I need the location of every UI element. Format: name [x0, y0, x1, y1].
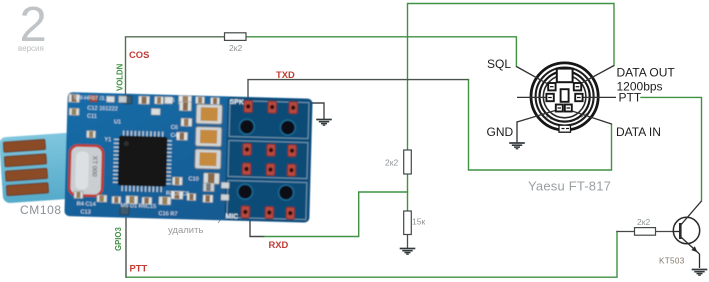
svg-text:C13: C13 — [80, 209, 90, 215]
svg-text:C4: C4 — [170, 133, 177, 139]
svg-text:CM108: CM108 — [20, 203, 62, 217]
svg-text:C16 R7: C16 R7 — [158, 211, 177, 218]
svg-text:2к2: 2к2 — [637, 217, 650, 227]
svg-text:TXD: TXD — [276, 69, 295, 80]
svg-text:Yaesu FT-817: Yaesu FT-817 — [528, 179, 611, 194]
svg-text:COS: COS — [129, 49, 149, 60]
svg-text:R4 C14: R4 C14 — [77, 201, 96, 208]
svg-text:KT503: KT503 — [659, 257, 685, 266]
svg-text:XT 000: XT 000 — [90, 156, 98, 177]
svg-text:Y1: Y1 — [104, 137, 111, 143]
svg-text:SW-HF07 /3.1: SW-HF07 /3.1 — [73, 95, 108, 102]
svg-text:DATA OUT: DATA OUT — [617, 66, 676, 80]
svg-text:2к2: 2к2 — [229, 43, 242, 53]
svg-text:DATA IN: DATA IN — [616, 125, 661, 139]
svg-text:SQL: SQL — [487, 57, 511, 71]
svg-text:RXD: RXD — [269, 239, 289, 250]
svg-text:C5: C5 — [167, 98, 174, 104]
svg-text:R3C9 C8: R3C9 C8 — [166, 191, 189, 198]
svg-text:версия: версия — [18, 44, 44, 53]
svg-text:C12 161222: C12 161222 — [87, 106, 118, 113]
svg-text:M5 D1 R6C15: M5 D1 R6C15 — [121, 203, 157, 210]
svg-text:2к2: 2к2 — [385, 158, 398, 168]
svg-text:15к: 15к — [412, 217, 425, 227]
svg-text:U1: U1 — [114, 119, 121, 125]
svg-text:C6: C6 — [171, 125, 178, 131]
svg-text:VOLDN: VOLDN — [116, 63, 125, 91]
svg-text:C11: C11 — [87, 114, 97, 120]
svg-text:удалить: удалить — [168, 225, 203, 236]
svg-text:PTT: PTT — [619, 91, 642, 105]
svg-text:MIC: MIC — [225, 213, 238, 220]
svg-text:C10: C10 — [188, 176, 198, 182]
svg-text:PTT: PTT — [130, 263, 148, 274]
svg-text:GND: GND — [487, 125, 514, 139]
svg-text:SPK: SPK — [229, 99, 244, 106]
svg-text:GPIO3: GPIO3 — [114, 227, 123, 251]
